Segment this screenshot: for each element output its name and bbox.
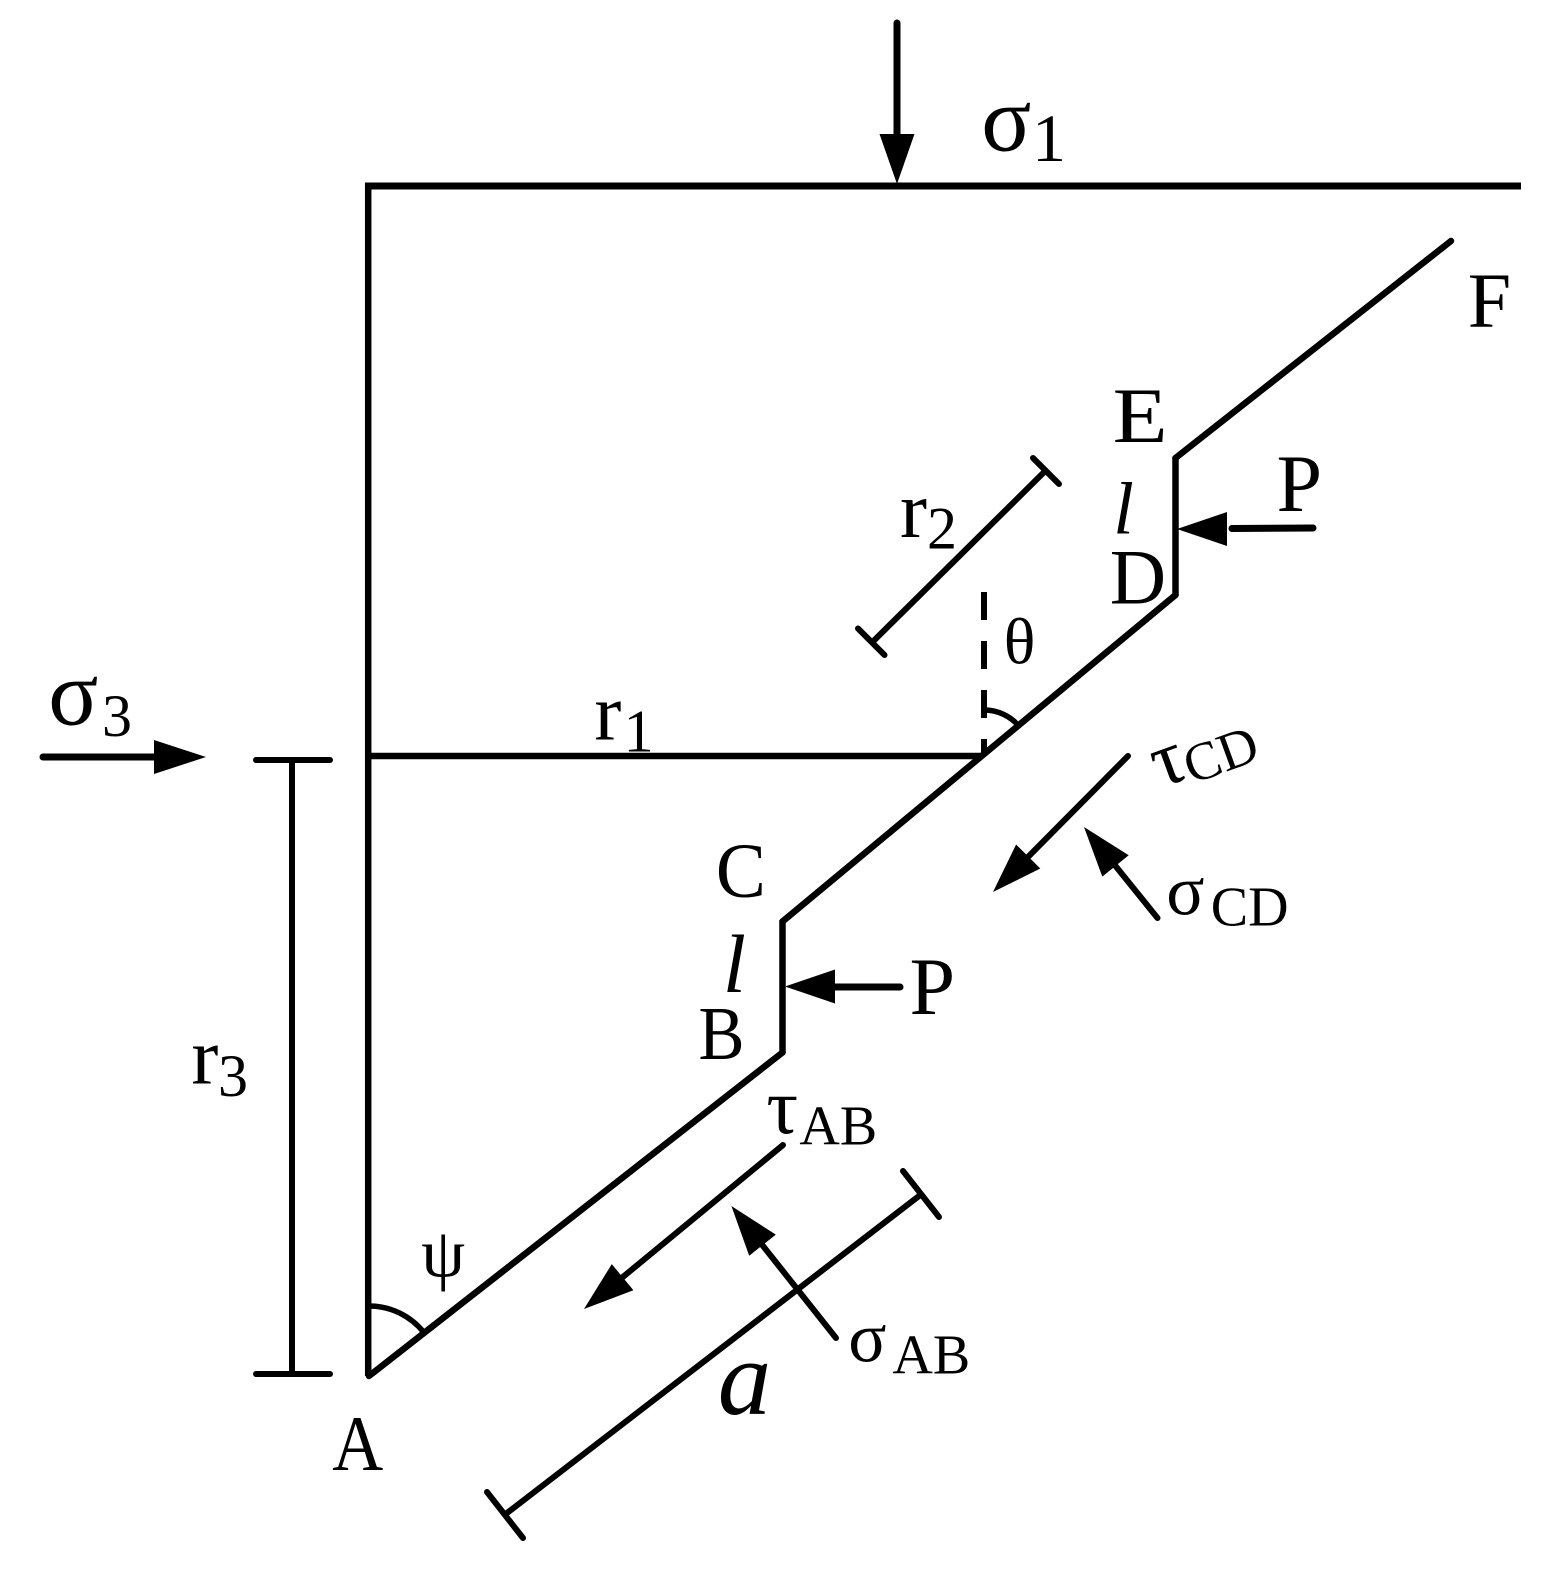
svg-text:P: P — [910, 941, 956, 1032]
svg-text:σ: σ — [1166, 853, 1204, 931]
crack E-F segment — [1176, 241, 1452, 458]
r2 label — [900, 465, 957, 562]
tauAB label — [766, 1064, 877, 1158]
svg-text:r: r — [594, 668, 621, 758]
tauCD label (rotated) — [1137, 686, 1267, 806]
svg-text:A: A — [332, 1400, 383, 1487]
sigma3 label — [48, 643, 132, 750]
svg-text:a: a — [718, 1320, 772, 1438]
tauAB arrow — [584, 1145, 783, 1309]
crack D-E segment — [1172, 458, 1179, 595]
P upper arrow — [1177, 512, 1313, 546]
svg-text:C: C — [716, 827, 766, 914]
wire left boundary — [365, 183, 372, 1377]
P lower arrow — [785, 970, 900, 1004]
wire r1 line — [368, 753, 981, 760]
sigmaAB arrow — [731, 1206, 836, 1338]
svg-text:AB: AB — [892, 1325, 970, 1387]
svg-text:θ: θ — [1004, 606, 1036, 679]
svg-text:P: P — [1277, 438, 1323, 529]
sigma3 arrow — [43, 740, 206, 774]
r1 label — [594, 668, 653, 765]
theta angle arc — [984, 710, 1019, 727]
sigmaCD arrow — [1084, 827, 1158, 918]
r3 measure line with end ticks — [256, 760, 330, 1374]
svg-text:τ: τ — [766, 1064, 798, 1151]
crack C-D segment — [783, 595, 1176, 922]
svg-text:1: 1 — [624, 699, 654, 765]
theta dashed vertical line — [981, 592, 987, 756]
r2 measure line with end ticks — [858, 458, 1059, 655]
svg-text:AB: AB — [799, 1096, 877, 1158]
sigmaAB label — [848, 1300, 970, 1387]
tauCD arrow — [993, 756, 1128, 892]
svg-text:σ: σ — [981, 69, 1031, 172]
svg-text:σ: σ — [48, 643, 98, 746]
crack A-B segment — [369, 1053, 783, 1377]
a measure line with end ticks — [487, 1171, 939, 1538]
crack B-C segment — [779, 922, 786, 1053]
svg-text:σ: σ — [848, 1300, 886, 1378]
svg-text:3: 3 — [218, 1043, 248, 1109]
sigma1 arrow — [880, 23, 915, 184]
svg-text:ψ: ψ — [421, 1216, 465, 1293]
svg-text:3: 3 — [102, 683, 132, 749]
sigmaCD label — [1166, 853, 1288, 939]
svg-text:1: 1 — [1032, 100, 1066, 176]
r3 label — [191, 1011, 248, 1109]
svg-text:B: B — [699, 992, 745, 1076]
wire top boundary — [365, 183, 1521, 190]
psi angle arc — [369, 1306, 424, 1333]
svg-text:r: r — [191, 1011, 218, 1101]
svg-text:F: F — [1468, 257, 1511, 344]
svg-text:E: E — [1113, 372, 1168, 459]
svg-text:D: D — [1110, 534, 1166, 621]
sigma1 label — [981, 69, 1066, 177]
svg-text:CD: CD — [1211, 877, 1289, 939]
svg-text:r: r — [900, 465, 927, 555]
svg-text:2: 2 — [927, 496, 957, 562]
